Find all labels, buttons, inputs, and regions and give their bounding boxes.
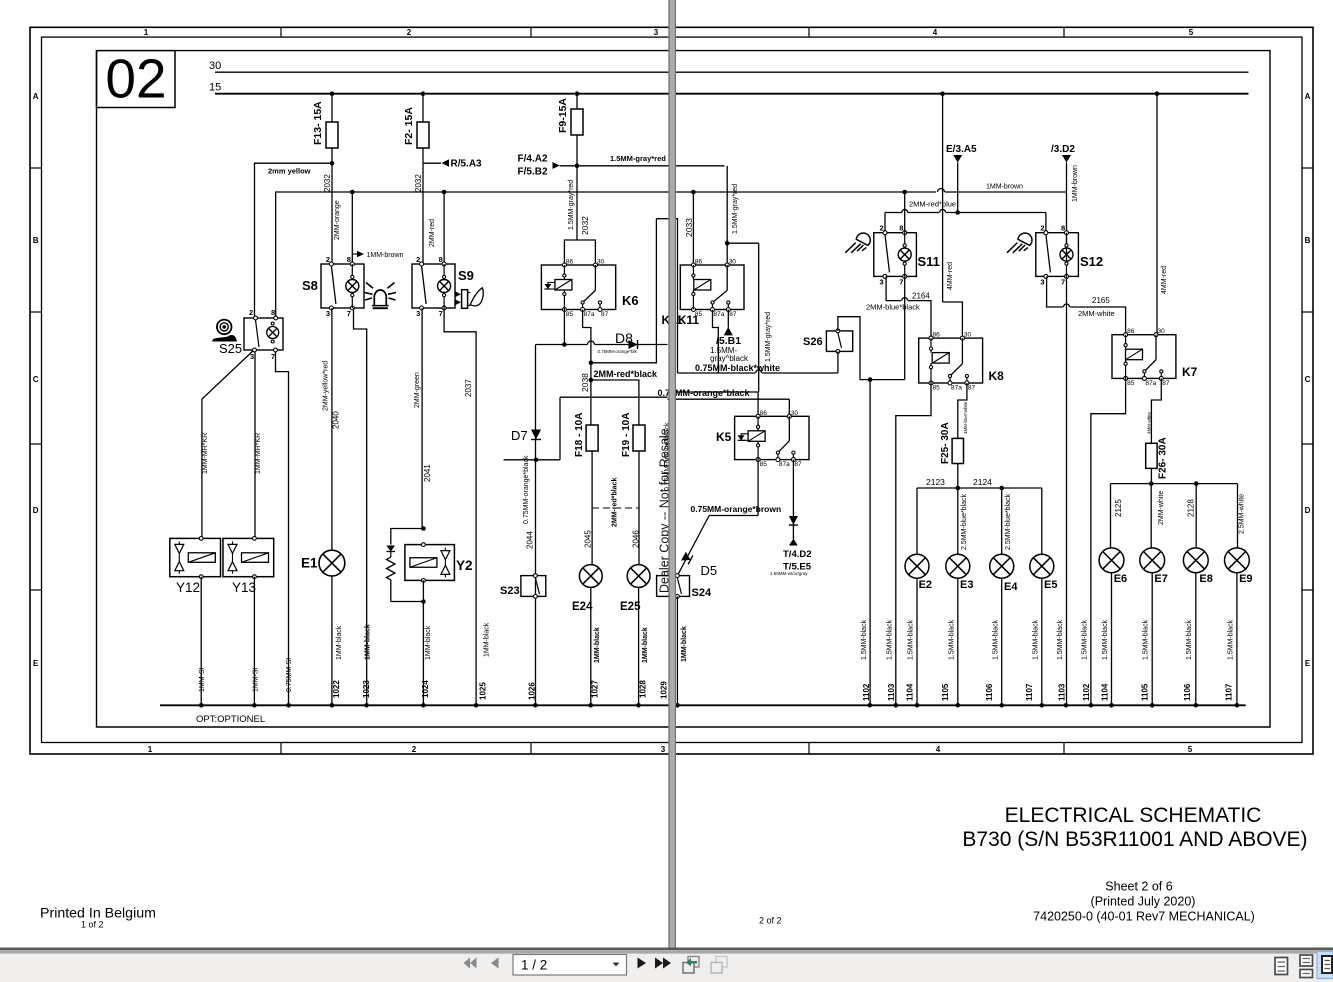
- svg-text:2044: 2044: [526, 531, 535, 549]
- svg-text:1.5MM-black: 1.5MM-black: [949, 619, 956, 660]
- svg-text:0.75MM-SI: 0.75MM-SI: [286, 658, 293, 692]
- svg-text:1025: 1025: [479, 682, 488, 700]
- svg-text:E6: E6: [1114, 573, 1127, 585]
- svg-text:15: 15: [209, 82, 221, 94]
- svg-text:0.75MM-orange*black: 0.75MM-orange*black: [523, 455, 530, 524]
- svg-text:4MM-red: 4MM-red: [947, 262, 954, 290]
- svg-text:5: 5: [1189, 28, 1194, 37]
- svg-text:1MM-black: 1MM-black: [484, 622, 491, 657]
- svg-text:1MM-black: 1MM-black: [365, 624, 372, 660]
- svg-text:1028: 1028: [639, 680, 648, 698]
- svg-text:F19 - 10A: F19 - 10A: [621, 413, 632, 457]
- svg-text:7: 7: [439, 309, 443, 318]
- svg-text:F9-15A: F9-15A: [557, 98, 569, 133]
- svg-text:7: 7: [347, 309, 351, 318]
- svg-text:T/4.D2: T/4.D2: [783, 549, 812, 560]
- svg-text:S12: S12: [1080, 254, 1103, 269]
- svg-text:gray^black: gray^black: [710, 354, 749, 363]
- svg-text:1104: 1104: [1101, 683, 1110, 701]
- svg-text:2MM-red*black: 2MM-red*black: [612, 477, 619, 527]
- svg-text:B: B: [1305, 236, 1311, 245]
- svg-text:85: 85: [1127, 380, 1135, 387]
- svg-text:0.75MM-orange*brown: 0.75MM-orange*brown: [691, 504, 782, 514]
- svg-text:1.50MM-wt/or/gray: 1.50MM-wt/or/gray: [770, 571, 808, 576]
- svg-text:1: 1: [144, 28, 149, 37]
- svg-text:2: 2: [412, 745, 417, 754]
- svg-text:2164: 2164: [912, 292, 930, 301]
- svg-text:86: 86: [1127, 328, 1135, 335]
- svg-text:3: 3: [326, 309, 330, 318]
- svg-text:2033: 2033: [684, 218, 694, 237]
- svg-text:2041: 2041: [423, 464, 432, 482]
- svg-text:1MM-black: 1MM-black: [425, 625, 432, 660]
- svg-text:E7: E7: [1154, 573, 1167, 585]
- svg-text:2: 2: [249, 308, 253, 317]
- svg-text:2032: 2032: [323, 174, 332, 192]
- svg-text:8: 8: [899, 224, 903, 233]
- svg-text:1.5MM-black: 1.5MM-black: [887, 619, 894, 660]
- svg-text:85: 85: [760, 461, 768, 468]
- svg-text:E4: E4: [1004, 581, 1018, 593]
- svg-text:1022: 1022: [332, 680, 341, 698]
- svg-text:2037: 2037: [464, 379, 473, 397]
- svg-text:K8: K8: [989, 369, 1005, 383]
- svg-text:1MM-black: 1MM-black: [594, 627, 601, 663]
- svg-text:87: 87: [601, 311, 609, 318]
- svg-text:3: 3: [661, 745, 666, 754]
- svg-text:D: D: [33, 506, 39, 515]
- svg-text:30: 30: [729, 259, 737, 266]
- svg-text:E3: E3: [960, 579, 973, 591]
- svg-text:86: 86: [933, 332, 941, 339]
- svg-text:2MM-red*black: 2MM-red*black: [594, 369, 659, 379]
- svg-text:2MM-blue*black: 2MM-blue*black: [866, 303, 920, 312]
- svg-text:2MM-green: 2MM-green: [414, 372, 421, 408]
- svg-text:1.5MM-black: 1.5MM-black: [1057, 619, 1064, 660]
- svg-text:1023: 1023: [362, 680, 371, 698]
- svg-text:2: 2: [407, 28, 412, 37]
- svg-text:1027: 1027: [591, 680, 600, 698]
- svg-text:30: 30: [209, 60, 221, 72]
- svg-text:87: 87: [729, 311, 737, 318]
- svg-text:2MM-red*blue: 2MM-red*blue: [909, 200, 956, 209]
- svg-text:1.5MM-black: 1.5MM-black: [1102, 619, 1109, 660]
- svg-text:1106: 1106: [1183, 683, 1192, 701]
- svg-text:1103: 1103: [887, 683, 896, 701]
- svg-text:3: 3: [250, 352, 254, 361]
- svg-text:2040: 2040: [332, 411, 341, 429]
- svg-text:R/5.A3: R/5.A3: [451, 159, 483, 170]
- svg-text:2MM-white: 2MM-white: [1158, 491, 1165, 525]
- svg-text:E/3.A5: E/3.A5: [946, 144, 977, 155]
- svg-text:1MM-black: 1MM-black: [642, 627, 649, 663]
- svg-text:86: 86: [566, 259, 574, 266]
- svg-text:2125: 2125: [1114, 499, 1123, 517]
- svg-text:1MM-brown: 1MM-brown: [986, 184, 1023, 191]
- svg-text:1.5MM-black: 1.5MM-black: [908, 619, 915, 660]
- svg-text:2MM-white: 2MM-white: [1078, 309, 1115, 318]
- svg-text:D: D: [1305, 506, 1311, 515]
- svg-text:1026: 1026: [528, 682, 537, 700]
- svg-text:(Printed July 2020): (Printed July 2020): [1091, 895, 1196, 909]
- svg-text:2045: 2045: [584, 530, 593, 548]
- svg-text:A: A: [1305, 92, 1311, 101]
- svg-text:S23: S23: [500, 585, 520, 597]
- svg-text:K6: K6: [622, 293, 639, 308]
- svg-text:1MM-brown: 1MM-brown: [367, 252, 404, 259]
- svg-text:/3.D2: /3.D2: [1051, 144, 1075, 155]
- svg-text:1.5MM-black: 1.5MM-black: [1143, 619, 1150, 660]
- svg-text:E9: E9: [1239, 573, 1252, 585]
- svg-text:E25: E25: [620, 601, 641, 613]
- svg-text:0.75MM-black*white: 0.75MM-black*white: [695, 363, 780, 373]
- svg-text:1029: 1029: [660, 681, 669, 699]
- svg-text:F2- 15A: F2- 15A: [403, 107, 415, 145]
- svg-text:1106: 1106: [985, 683, 994, 701]
- svg-text:87: 87: [1162, 380, 1170, 387]
- svg-text:7: 7: [1061, 277, 1065, 286]
- svg-text:87: 87: [794, 461, 802, 468]
- svg-text:C: C: [1305, 375, 1311, 384]
- svg-text:1.5MM-black: 1.5MM-black: [1033, 619, 1040, 660]
- svg-text:2046: 2046: [632, 530, 641, 548]
- svg-text:87a: 87a: [779, 461, 790, 468]
- svg-text:85: 85: [566, 311, 574, 318]
- svg-text:2MM-yellow*red: 2MM-yellow*red: [323, 361, 330, 411]
- svg-text:2: 2: [416, 255, 420, 264]
- svg-text:1MM-black: 1MM-black: [336, 625, 343, 660]
- svg-text:4MM-blue*white: 4MM-blue*white: [963, 401, 968, 434]
- svg-text:ELECTRICAL SCHEMATIC: ELECTRICAL SCHEMATIC: [1005, 804, 1262, 827]
- svg-text:4MM-red: 4MM-red: [1161, 266, 1168, 294]
- svg-text:1.5MM-black: 1.5MM-black: [1082, 619, 1089, 660]
- svg-text:4: 4: [936, 745, 941, 754]
- svg-text:2: 2: [1040, 224, 1044, 233]
- svg-text:K11: K11: [678, 313, 700, 327]
- svg-text:1104: 1104: [906, 683, 915, 701]
- svg-text:E2: E2: [919, 579, 932, 591]
- svg-text:87a: 87a: [1145, 380, 1156, 387]
- svg-text:E: E: [33, 659, 39, 668]
- svg-text:1105: 1105: [941, 683, 950, 701]
- svg-text:87a: 87a: [584, 311, 595, 318]
- svg-text:87a: 87a: [951, 385, 962, 392]
- svg-text:7: 7: [271, 352, 275, 361]
- svg-text:1MM-brown: 1MM-brown: [1072, 165, 1079, 202]
- svg-text:86: 86: [695, 259, 703, 266]
- svg-text:1MM-MR*KR: 1MM-MR*KR: [202, 433, 209, 474]
- svg-text:S26: S26: [803, 336, 823, 348]
- svg-text:D8: D8: [615, 330, 633, 346]
- svg-text:1.5MM-black: 1.5MM-black: [1228, 619, 1235, 660]
- svg-text:E: E: [1305, 659, 1311, 668]
- svg-text:1.5MM-gray*red: 1.5MM-gray*red: [610, 154, 666, 163]
- svg-text:2123: 2123: [926, 477, 945, 487]
- svg-text:C: C: [33, 375, 39, 384]
- svg-text:1 of 2: 1 of 2: [81, 920, 104, 930]
- svg-text:30: 30: [597, 259, 605, 266]
- svg-text:1107: 1107: [1025, 683, 1034, 701]
- svg-text:1107: 1107: [1225, 683, 1234, 701]
- svg-text:1: 1: [148, 745, 153, 754]
- svg-text:Y13: Y13: [232, 580, 256, 595]
- svg-text:1102: 1102: [862, 683, 871, 701]
- svg-text:1.5MM-black: 1.5MM-black: [993, 619, 1000, 660]
- svg-text:B: B: [33, 236, 39, 245]
- svg-text:02: 02: [105, 47, 166, 109]
- svg-text:1102: 1102: [1082, 683, 1091, 701]
- svg-text:1103: 1103: [1058, 683, 1067, 701]
- svg-text:7: 7: [899, 277, 903, 286]
- svg-text:1MM-SI: 1MM-SI: [253, 667, 260, 692]
- svg-text:30: 30: [1158, 328, 1166, 335]
- svg-text:K5: K5: [716, 430, 732, 444]
- svg-text:2: 2: [880, 224, 884, 233]
- svg-text:2038: 2038: [580, 373, 590, 392]
- svg-text:7420250-0 (40-01 Rev7 MECHANIC: 7420250-0 (40-01 Rev7 MECHANICAL): [1033, 910, 1255, 924]
- svg-text:F25- 30A: F25- 30A: [940, 422, 951, 464]
- svg-text:B730 (S/N B53R11001 AND ABOVE): B730 (S/N B53R11001 AND ABOVE): [962, 828, 1307, 851]
- svg-text:S11: S11: [918, 254, 940, 269]
- svg-text:2032: 2032: [414, 174, 423, 192]
- svg-text:3: 3: [416, 309, 420, 318]
- svg-text:86: 86: [760, 410, 768, 417]
- svg-text:4MM-white: 4MM-white: [1147, 411, 1152, 434]
- svg-text:1 / 2: 1 / 2: [521, 958, 547, 973]
- svg-text:1105: 1105: [1141, 683, 1150, 701]
- svg-text:2128: 2128: [1187, 499, 1196, 517]
- svg-text:4: 4: [933, 28, 938, 37]
- svg-text:Sheet 2 of 6: Sheet 2 of 6: [1105, 880, 1172, 894]
- svg-text:87a: 87a: [714, 311, 725, 318]
- svg-text:F18 - 10A: F18 - 10A: [574, 413, 585, 457]
- svg-text:1.5MM-gray*red: 1.5MM-gray*red: [765, 312, 772, 362]
- svg-text:A: A: [33, 92, 39, 101]
- svg-text:1MM-SI: 1MM-SI: [199, 667, 206, 692]
- svg-text:30: 30: [791, 410, 799, 417]
- svg-text:30: 30: [964, 332, 972, 339]
- svg-text:2 of 2: 2 of 2: [759, 916, 782, 926]
- svg-text:2.5MM-blue*black: 2.5MM-blue*black: [961, 493, 968, 550]
- svg-text:D5: D5: [701, 563, 718, 578]
- svg-text:1.5MM-gray*red: 1.5MM-gray*red: [732, 184, 739, 234]
- svg-text:8: 8: [347, 255, 351, 264]
- svg-text:K7: K7: [1182, 365, 1198, 379]
- svg-text:1MM-black: 1MM-black: [681, 626, 688, 662]
- svg-text:2124: 2124: [973, 477, 992, 487]
- svg-text:2165: 2165: [1092, 296, 1110, 305]
- svg-text:F/4.A2: F/4.A2: [518, 154, 548, 165]
- svg-text:E8: E8: [1199, 573, 1212, 585]
- svg-text:F13- 15A: F13- 15A: [312, 101, 324, 145]
- svg-text:1.5MM-black: 1.5MM-black: [861, 619, 868, 660]
- svg-text:E5: E5: [1044, 579, 1057, 591]
- svg-text:S25: S25: [219, 341, 242, 356]
- svg-text:5: 5: [1188, 745, 1193, 754]
- svg-text:2.5MM-blue*black: 2.5MM-blue*black: [1005, 493, 1012, 550]
- svg-text:Y12: Y12: [176, 580, 200, 595]
- svg-text:1MM-MR*KR: 1MM-MR*KR: [255, 433, 262, 474]
- svg-text:3: 3: [1040, 277, 1044, 286]
- svg-text:8: 8: [439, 255, 443, 264]
- svg-text:Y2: Y2: [456, 558, 473, 573]
- svg-text:S24: S24: [692, 587, 712, 599]
- svg-text:S8: S8: [302, 278, 318, 293]
- svg-text:0.75MM-orange*blk: 0.75MM-orange*blk: [598, 349, 638, 354]
- svg-text:E1: E1: [301, 556, 318, 571]
- svg-text:1.5MM-gray*red: 1.5MM-gray*red: [568, 180, 575, 230]
- svg-text:3: 3: [880, 277, 884, 286]
- svg-text:S9: S9: [458, 268, 474, 283]
- svg-text:3: 3: [654, 28, 659, 37]
- svg-text:2mm yellow: 2mm yellow: [268, 167, 311, 176]
- svg-text:F26- 30A: F26- 30A: [1158, 437, 1169, 479]
- svg-text:2.5MM-white: 2.5MM-white: [1239, 494, 1246, 534]
- svg-text:8: 8: [271, 308, 275, 317]
- svg-text:87: 87: [968, 385, 976, 392]
- svg-text:1.5MM-black: 1.5MM-black: [1186, 619, 1193, 660]
- svg-text:8: 8: [1061, 224, 1065, 233]
- svg-text:F/5.B2: F/5.B2: [518, 167, 548, 178]
- svg-text:E24: E24: [572, 601, 593, 613]
- svg-text:1024: 1024: [421, 680, 430, 698]
- svg-text:2032: 2032: [580, 216, 590, 235]
- svg-text:2: 2: [326, 255, 330, 264]
- svg-text:D7: D7: [511, 428, 528, 443]
- svg-text:2MM-red: 2MM-red: [429, 219, 436, 247]
- svg-text:85: 85: [933, 385, 941, 392]
- svg-text:2MM-orange: 2MM-orange: [334, 200, 341, 240]
- svg-text:OPT:OPTIONEL: OPT:OPTIONEL: [196, 714, 265, 725]
